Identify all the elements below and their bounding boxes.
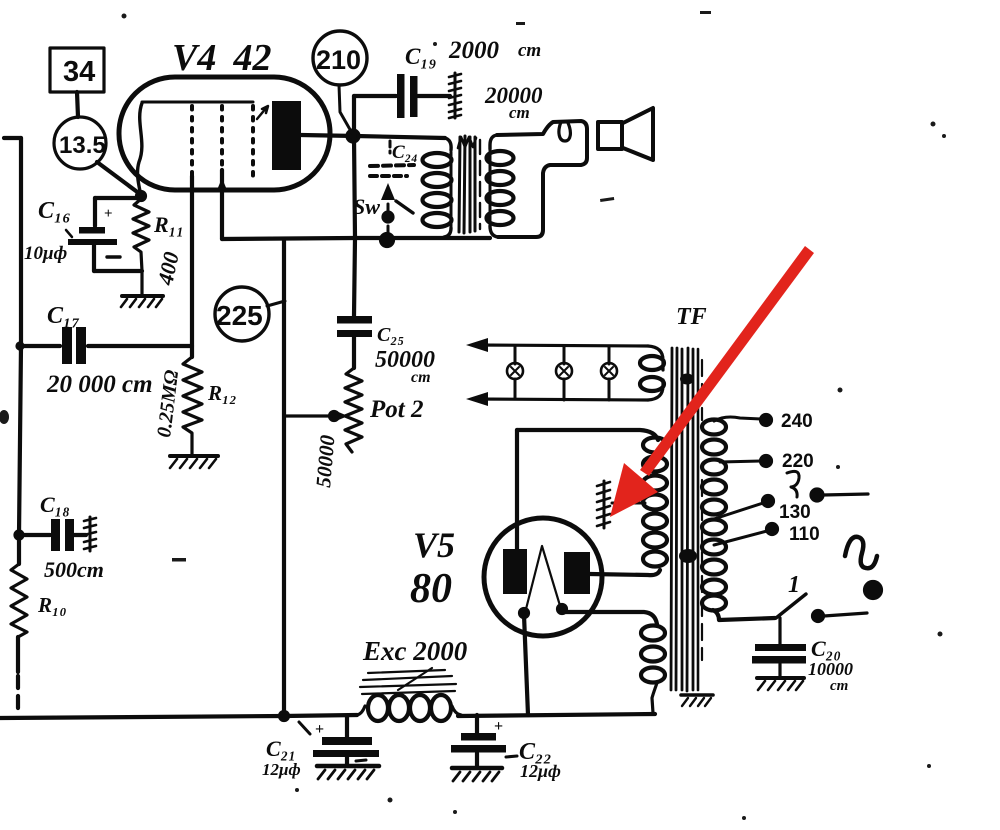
svg-text:C₂₀: C₂₀ [811, 636, 841, 661]
svg-text:C₂₄: C₂₄ [392, 142, 418, 163]
svg-text:13.5: 13.5 [59, 132, 106, 159]
svg-text:220: 220 [782, 451, 814, 472]
capacitor C17 [21, 327, 192, 364]
field coil Exc 2000 [357, 695, 461, 721]
hatch element after C18 [84, 517, 96, 551]
wire HT top lead [517, 430, 658, 440]
red annotation arrow [610, 246, 814, 517]
capacitor C21 (electrolytic) [299, 716, 379, 764]
field coil iron core hatching [360, 668, 456, 694]
TF heater winding (pilot) [640, 356, 664, 391]
wire 13.5 to cathode junction [97, 162, 140, 194]
capacitor C20 [752, 618, 806, 677]
svg-text:225: 225 [216, 300, 263, 331]
label R10 [37, 593, 67, 617]
grid-3 tick near anode [257, 106, 268, 119]
svg-text:C₂₅: C₂₅ [377, 324, 404, 346]
svg-text:V5: V5 [413, 525, 455, 565]
svg-text:+: + [315, 721, 324, 738]
svg-text:1: 1 [788, 572, 800, 598]
pilot lamp circuit bottom line with arrow [466, 380, 663, 406]
svg-text:80: 80 [410, 566, 452, 612]
svg-text:cm: cm [518, 40, 541, 61]
svg-text:cm: cm [509, 103, 530, 122]
speaker [598, 108, 653, 160]
svg-text:R₁₂: R₁₂ [207, 381, 237, 405]
label C25 50000 cm [375, 324, 435, 386]
wire C19 branch [354, 94, 396, 98]
hatch element at HT centre tap [597, 481, 610, 528]
wire screen-grid lead [217, 170, 227, 239]
svg-text:cm: cm [411, 369, 431, 386]
wire R10 to rail (part dashed) [16, 637, 20, 712]
wire bottom rail [0, 714, 655, 718]
node 210 [313, 31, 367, 85]
node switch-rail junction [381, 234, 393, 246]
wire plate lead of V4 [301, 135, 445, 138]
ground under C22 [452, 768, 502, 781]
label 0.25MOhm (rotated) [153, 369, 183, 439]
svg-text:10μф: 10μф [24, 243, 67, 264]
label C24 [392, 142, 418, 163]
power transformer TF label [676, 304, 707, 330]
switch Sw [381, 183, 413, 233]
TF HT secondary winding [643, 438, 667, 567]
wire main vertical x284 [282, 239, 286, 715]
capacitor C24 (dashed) [370, 141, 414, 176]
label Pot 2 [369, 396, 423, 423]
resistor R11 [133, 199, 149, 294]
node rail junction x284 [280, 712, 288, 720]
wire cathode network bottom side [94, 269, 142, 273]
TF primary winding [702, 420, 726, 611]
ground under TF core [681, 695, 713, 706]
anode plates of V5 [503, 549, 590, 594]
wire left anode lead [515, 430, 519, 549]
label C18 [40, 492, 70, 517]
label 20000 cm [484, 83, 543, 122]
TF core [671, 348, 702, 691]
grid 1 of V4 (dotted) [190, 106, 194, 176]
pilot lamp 3 [601, 346, 617, 400]
svg-text:130: 130 [779, 502, 811, 523]
grid 2 of V4 (dotted) [220, 106, 224, 170]
label V4 42 [172, 37, 271, 79]
svg-text:50000: 50000 [311, 434, 340, 489]
label Exc 2000 [362, 636, 468, 666]
output transformer secondary [487, 121, 588, 237]
selector common node [812, 490, 869, 501]
svg-text:TF: TF [676, 304, 707, 330]
wire box34 to node 13.5 [77, 92, 78, 117]
svg-text:12μф: 12μф [520, 761, 561, 781]
label V5 80 [410, 525, 455, 612]
ground under R11 [121, 296, 163, 307]
node 13.5 [54, 117, 106, 169]
svg-text:R₁₀: R₁₀ [37, 593, 67, 617]
HT winding centre-tap lead [612, 502, 645, 505]
selector squiggle [787, 471, 799, 497]
node C17 input junction [18, 344, 23, 349]
svg-text:+: + [494, 718, 503, 735]
label C16 [38, 198, 71, 224]
label R12 [207, 381, 237, 405]
label C17 [47, 303, 80, 329]
svg-text:V4 42: V4 42 [172, 37, 271, 79]
svg-text:C₁₉: C₁₉ [405, 44, 436, 69]
pilot lamp circuit top line with arrow [466, 338, 663, 370]
wire B+ rail y239 [222, 238, 490, 239]
svg-text:500cm: 500cm [44, 557, 104, 582]
tap 220 [720, 451, 814, 472]
anode of V4 [272, 101, 301, 170]
svg-text:240: 240 [781, 411, 813, 432]
ground under R12 [170, 456, 218, 468]
tap 130 [714, 496, 811, 523]
svg-text:210: 210 [316, 45, 361, 75]
node plate junction [348, 131, 359, 142]
node 225 [215, 287, 269, 341]
wire filament to heater winding [562, 611, 657, 624]
wire primary bottom lead [713, 610, 775, 620]
svg-text:110: 110 [789, 524, 820, 545]
wire left vertical rail [19, 138, 21, 564]
output transformer primary coil [423, 138, 452, 237]
AC mains symbol [845, 537, 881, 598]
pilot lamp 1 [507, 346, 523, 399]
label 50000 (rotated) [311, 434, 340, 489]
terminal box 34 [50, 48, 104, 92]
svg-text:12μф: 12μф [262, 760, 301, 779]
label C22 12uF [519, 739, 561, 781]
potentiometer Pot 2 [345, 368, 362, 452]
svg-text:R₁₁: R₁₁ [153, 212, 184, 237]
label 20 000 cm [46, 371, 153, 398]
svg-text:C₁₈: C₁₈ [40, 492, 70, 517]
node cathode junction [137, 192, 145, 200]
wire input stub top-left [4, 136, 21, 140]
wire grid-1 lead [190, 176, 194, 357]
tap 110 [714, 524, 820, 545]
svg-text:34: 34 [63, 56, 95, 88]
voice-coil hook loop [559, 122, 570, 141]
label 400 (rotated) [152, 250, 184, 288]
svg-text:10000: 10000 [808, 659, 853, 679]
svg-text:Pot 2: Pot 2 [369, 396, 423, 423]
capacitor C16 (electrolytic) [66, 198, 120, 271]
filament of V5 [520, 546, 566, 617]
svg-text:C₂₁: C₂₁ [266, 736, 296, 761]
svg-text:Exc 2000: Exc 2000 [362, 636, 468, 666]
capacitor C22 (electrolytic) [451, 715, 517, 766]
pilot lamp 2 [556, 346, 572, 400]
resistor R12 [183, 357, 202, 455]
label C19 2000 cm [405, 37, 541, 69]
label 500cm [44, 557, 104, 582]
grid 3 of V4 (dotted) [251, 106, 255, 176]
tap 240 [714, 411, 813, 432]
capacitor C18 [19, 519, 86, 551]
node C18 input junction [16, 532, 23, 539]
svg-text:cm: cm [830, 678, 848, 694]
cathode top bar of V4 [142, 101, 253, 104]
resistor R10 [11, 564, 27, 637]
ground under C20 [757, 678, 804, 690]
wire filament to rail [524, 615, 528, 715]
ground under C21 [317, 766, 379, 779]
capacitor C19 [397, 74, 450, 118]
hatch element after C19 [449, 73, 461, 118]
label C20 10000 cm [808, 636, 853, 694]
capacitor C25 [337, 316, 372, 368]
mains switch [776, 572, 867, 621]
rectifier V5 envelope [484, 518, 602, 636]
wire cathode network top side [95, 196, 141, 200]
cathode of V4 [138, 103, 142, 196]
svg-text:20 000 cm: 20 000 cm [46, 371, 153, 398]
wire 225 link [267, 301, 285, 306]
wiper of Pot 2 [284, 411, 348, 421]
svg-text:C₁₆: C₁₆ [38, 198, 71, 224]
label R11 [153, 212, 184, 237]
TF rectifier filament winding [641, 626, 665, 714]
wire B+ vertical [354, 96, 355, 316]
svg-text:Sw: Sw [353, 194, 380, 219]
output transformer core [458, 136, 480, 233]
tube V4 envelope [119, 77, 330, 190]
svg-text:+: + [104, 206, 113, 222]
svg-text:2000: 2000 [448, 37, 500, 64]
label 10uF [24, 243, 67, 264]
label Sw [353, 194, 380, 219]
svg-text:C₁₇: C₁₇ [47, 303, 80, 329]
wire 210 stem [339, 85, 352, 133]
wire right anode lead [590, 570, 660, 575]
label C21 12uF [262, 736, 301, 779]
